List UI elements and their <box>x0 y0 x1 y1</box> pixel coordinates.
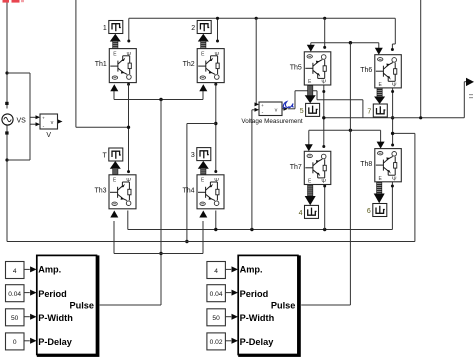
wire const <box>225 292 231 294</box>
wire gate feed top <box>311 42 379 44</box>
node Th5 m2 <box>322 90 325 93</box>
wire Th3 cathode drop <box>127 211 129 230</box>
wire output stub <box>464 81 467 83</box>
wire Th2 C to Th4 m <box>215 84 217 171</box>
thyristor Th6 <box>375 55 402 89</box>
arrow into Th1 gate <box>110 84 118 91</box>
svg-text:P-Width: P-Width <box>240 313 275 323</box>
wire pulse2 output <box>301 304 350 306</box>
junction VS- <box>5 158 8 161</box>
AC source VS <box>2 114 13 125</box>
pulse link Th2 <box>198 34 209 42</box>
junction VM- cathode bus <box>250 228 253 231</box>
thyristor Th8 <box>375 149 402 183</box>
node Th3 m <box>127 170 130 173</box>
wire Th8 m drop <box>391 181 393 230</box>
thyristor Th4 <box>197 175 224 209</box>
wire Th5m Th7C chain <box>323 85 325 147</box>
wire source return bus <box>7 241 415 243</box>
arrow output to right edge <box>466 78 474 86</box>
wire Th1 gate riser <box>113 91 115 100</box>
arrow VM- in <box>255 108 260 112</box>
wire to VM + input <box>255 18 257 104</box>
arrow into V + <box>36 115 41 119</box>
wire top bus <box>129 17 396 19</box>
pulse link Th7 <box>308 185 313 197</box>
wire const <box>24 292 30 294</box>
thyristor Th2 <box>197 49 224 83</box>
constant 0 <box>6 333 25 350</box>
junction gate bus 1 <box>159 98 162 101</box>
junction return mid <box>391 132 394 135</box>
wire const <box>225 316 231 318</box>
annotation 6v <box>283 102 293 108</box>
junction top bus Th2 <box>216 17 219 20</box>
svg-text:Th5: Th5 <box>290 64 302 71</box>
node Th7 m <box>323 185 326 188</box>
wire Th3 gate riser <box>113 221 115 254</box>
svg-text:3: 3 <box>191 152 195 159</box>
wire Th1 C to Th3 m <box>128 84 130 171</box>
wire jog <box>392 43 395 45</box>
wire gate feed mid <box>309 129 381 131</box>
pulse link Th1 <box>110 34 121 42</box>
junction pulse1 lower <box>159 252 162 255</box>
svg-text:1: 1 <box>103 25 107 32</box>
arrow into Th4 gate <box>199 211 207 218</box>
node Th2 cathode <box>214 83 217 86</box>
node Th6 m2 <box>391 90 394 93</box>
svg-text:Pulse: Pulse <box>271 300 296 310</box>
node Th7 C2 <box>322 145 325 148</box>
wire VS minus column <box>6 126 8 242</box>
wire VM minus column <box>251 110 253 230</box>
svg-text:VS: VS <box>17 118 27 125</box>
wire cathode bus <box>128 229 393 231</box>
wire stair2 <box>295 90 317 92</box>
svg-text:4: 4 <box>214 268 218 275</box>
wire gate bus 1 <box>114 99 203 101</box>
pulse link Th8 <box>377 181 382 194</box>
junction Th1C nodeA <box>127 126 130 129</box>
junction output bus mid <box>391 116 394 119</box>
wire VM minus stub <box>252 109 255 111</box>
wire Th1 m-port drop <box>128 18 130 41</box>
svg-text:P-Width: P-Width <box>38 313 73 323</box>
pulse port 5 <box>306 103 320 116</box>
junction output top column <box>419 116 422 119</box>
wire down to return bus <box>186 124 188 242</box>
svg-text:0.04: 0.04 <box>210 291 223 298</box>
pulse port T <box>109 148 123 161</box>
constant 0.02 <box>207 333 226 350</box>
wire Th8 gate drop <box>380 130 382 142</box>
svg-text:7: 7 <box>367 109 371 116</box>
wire pulse2 feed column <box>349 43 351 305</box>
pulse port 2 <box>197 21 211 34</box>
pulse port 3 <box>197 148 211 161</box>
wire return riser <box>414 133 416 241</box>
svg-text:P-Delay: P-Delay <box>240 337 275 347</box>
svg-text:Th7: Th7 <box>290 164 302 171</box>
svg-text:V: V <box>46 132 51 139</box>
pulse port 1 <box>109 21 123 34</box>
constant 0.04 <box>6 285 25 302</box>
svg-text:6: 6 <box>367 208 371 215</box>
wire stair4 <box>317 99 363 101</box>
wire const <box>225 340 231 342</box>
svg-text:Amp.: Amp. <box>240 265 263 275</box>
node Th4 m <box>214 170 217 173</box>
arrow into Th6 gate <box>375 48 383 55</box>
svg-text:0.02: 0.02 <box>210 339 223 346</box>
svg-text:0: 0 <box>13 339 17 346</box>
svg-text:2: 2 <box>191 25 195 32</box>
wire pulse1 feed column <box>160 100 162 306</box>
arrow into Th7 gate <box>305 144 313 151</box>
node Th2 m <box>216 40 219 43</box>
wire V + stub <box>30 116 36 118</box>
wire Th2C branch left <box>187 123 216 125</box>
svg-text:50: 50 <box>212 315 220 322</box>
wire Th4 gate riser <box>202 221 204 254</box>
wire VM out stub <box>282 108 284 110</box>
wire pulse1 output <box>100 304 161 306</box>
thyristor Th1 <box>109 49 136 83</box>
wire const <box>24 340 30 342</box>
constant 4 <box>6 262 25 279</box>
pulse port 7 <box>373 104 387 117</box>
svg-text:Period: Period <box>240 289 269 299</box>
wire voltmeter column <box>29 73 31 160</box>
svg-text:Voltage Measurement: Voltage Measurement <box>241 118 303 125</box>
junction VS+ <box>5 71 8 74</box>
thyristor Th7 <box>304 151 331 185</box>
wire stair3 <box>316 91 318 100</box>
svg-text:5: 5 <box>300 108 304 115</box>
voltage measurement block <box>259 102 282 116</box>
wire const <box>24 316 30 318</box>
svg-text:4: 4 <box>299 210 303 217</box>
pulse generator subsystem 2 <box>238 255 301 357</box>
wire branch to voltmeter minus <box>7 159 30 161</box>
node Th8 C <box>391 144 394 147</box>
constant 50 <box>6 309 25 326</box>
arrow V out <box>58 120 63 124</box>
VS + terminal tick <box>5 102 8 105</box>
node Th6 C <box>391 48 394 51</box>
svg-text:4: 4 <box>13 268 17 275</box>
wire VM out <box>288 108 295 110</box>
clipped glyph right edge <box>469 94 473 95</box>
wire gate bus 2 <box>114 253 203 255</box>
pulse link Th3 <box>110 161 121 169</box>
arrow into Th5 gate <box>307 45 315 52</box>
node Th5 C <box>323 46 326 49</box>
junction Th7m cathode bus <box>323 228 326 231</box>
constant 0.04 <box>207 285 226 302</box>
wire output riser <box>463 82 465 118</box>
wire V - stub <box>30 123 36 125</box>
constant 4 <box>207 262 226 279</box>
thyristor Th3 <box>109 175 136 209</box>
svg-text:Th1: Th1 <box>95 61 107 68</box>
node Th1 cathode <box>127 83 130 86</box>
svg-text:+: + <box>42 116 45 121</box>
svg-text:T: T <box>103 153 108 160</box>
svg-text:Pulse: Pulse <box>69 300 94 310</box>
wire node A to Th1 cathode <box>76 126 129 128</box>
wire output bus <box>324 117 465 119</box>
arrow into V - <box>36 122 41 126</box>
wire Th5 gate drop <box>310 43 312 47</box>
junction top bus Th5 <box>323 17 326 20</box>
svg-text:P-Delay: P-Delay <box>38 337 73 347</box>
junction gate feed mid <box>349 129 352 132</box>
wire V out stub <box>58 121 60 123</box>
junction output bus left <box>322 116 325 119</box>
wire stair5 <box>362 100 364 118</box>
junction return bus <box>185 240 188 243</box>
thyristor Th5 <box>304 52 331 86</box>
svg-text:50: 50 <box>11 315 19 322</box>
svg-text:Period: Period <box>38 289 67 299</box>
arrow into Th2 gate <box>199 84 207 91</box>
wire Th5 C-port drop <box>324 18 326 47</box>
wire branch to voltmeter <box>7 72 30 74</box>
svg-text:v: v <box>275 108 278 114</box>
svg-text:0.04: 0.04 <box>8 291 21 298</box>
wire Th4 cathode drop <box>215 211 217 230</box>
wire Th6m Th8C chain <box>392 88 394 145</box>
pulse link Th4 <box>198 161 209 169</box>
svg-text:Th3: Th3 <box>94 187 106 194</box>
wire Th7 m drop <box>324 186 326 230</box>
red watermark fragment <box>3 0 10 3</box>
junction top bus VM <box>255 17 258 20</box>
arrow VM out <box>284 107 289 111</box>
svg-text:Th2: Th2 <box>183 61 195 68</box>
wire Th6 gate drop <box>378 43 380 50</box>
node Th8 m <box>391 185 394 188</box>
arrow into Th3 gate <box>110 211 118 218</box>
svg-text:v: v <box>51 120 54 126</box>
wire node A column <box>75 0 77 127</box>
svg-text:Th8: Th8 <box>360 161 372 168</box>
wire VS plus column <box>6 0 8 109</box>
junction gate feed top <box>349 41 352 44</box>
arrow VM+ in <box>255 102 260 106</box>
pulse port 6 <box>373 204 387 217</box>
voltmeter V <box>40 114 58 129</box>
junction Th4 cathode bus <box>214 228 217 231</box>
wire top right column <box>420 0 422 118</box>
node Th1 m <box>127 40 130 43</box>
wire top bus right corner <box>394 18 396 44</box>
wire const <box>225 268 231 270</box>
wire Th2 m-port drop <box>217 18 219 41</box>
pulse link Th6 <box>377 88 382 97</box>
wire stair1 <box>294 91 296 109</box>
pulse generator subsystem 1 <box>37 255 100 357</box>
VS - terminal tick <box>5 131 8 134</box>
svg-text:Th4: Th4 <box>182 187 194 194</box>
arrow into Th8 gate <box>377 142 385 149</box>
svg-text:Amp.: Amp. <box>38 265 61 275</box>
pulse port 4 <box>305 205 319 218</box>
pulse link Th5 <box>308 85 313 96</box>
wire Th6 C-port drop <box>391 44 393 50</box>
svg-text:Th6: Th6 <box>360 67 372 74</box>
svg-text:+: + <box>261 103 264 108</box>
wire return to Th8 <box>393 132 415 134</box>
wire Th2 gate riser <box>202 91 204 100</box>
wire Th7 gate drop <box>308 130 310 145</box>
wire const <box>24 268 30 270</box>
junction Th2C branch <box>214 122 217 125</box>
constant 50 <box>207 309 226 326</box>
